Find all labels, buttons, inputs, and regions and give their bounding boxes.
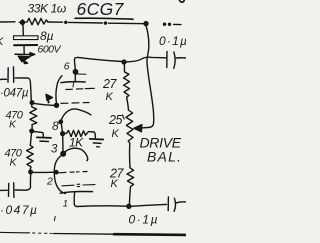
wire cap to grid junction <box>15 78 31 102</box>
ground middle-left <box>37 136 51 139</box>
svg-text:·047µ: ·047µ <box>0 203 38 217</box>
potentiometer 25K drive balance <box>126 110 133 143</box>
wire B+ from left edge <box>0 21 15 23</box>
tube U1 lower cathode arc pin 3 <box>64 148 88 161</box>
wire dash-dot continuation to right edge <box>164 23 171 25</box>
wire to middle ground <box>34 132 44 137</box>
svg-text:K: K <box>10 157 18 169</box>
arrow wiper of drive balance pot <box>134 125 142 132</box>
label 470K lower <box>5 148 23 169</box>
svg-text:K: K <box>111 178 119 190</box>
ground below 8u cap <box>15 53 33 55</box>
label DRIVE BAL. <box>140 135 183 165</box>
resistor 27K upper plate load <box>124 64 130 110</box>
node ground tap junction <box>30 129 34 133</box>
tube U1 upper plate bar pin 6 <box>61 81 85 84</box>
capacitor 8u 600V top plate <box>14 36 39 40</box>
node cathode junction blob <box>61 152 66 157</box>
wire cathode chain <box>62 135 64 152</box>
resistor 1K cathode <box>65 130 96 137</box>
wire plate lead up <box>74 75 76 83</box>
label .047u lower <box>0 203 38 217</box>
label 600V <box>38 44 62 56</box>
node upper grid junction <box>30 101 34 105</box>
wire lower plate lead down <box>74 192 77 206</box>
label 0.1u lower <box>129 213 160 227</box>
label 0.1u upper <box>159 34 188 48</box>
svg-text:600V: 600V <box>38 44 62 56</box>
svg-text:6CG7: 6CG7 <box>77 0 125 19</box>
label 33K 1W <box>28 2 66 16</box>
wire bottom output <box>77 205 127 208</box>
resistor 33K 1W <box>27 18 48 25</box>
capacitor 0.047u lower input <box>0 189 7 191</box>
pin 2 label <box>46 176 53 188</box>
svg-text:K: K <box>112 128 120 140</box>
label K cut at left edge <box>0 36 4 48</box>
resistor 470K upper grid leak <box>30 105 37 130</box>
wire bottom bus <box>0 231 30 234</box>
tube U1 upper cathode arc pin 8 <box>61 109 91 122</box>
svg-text:0·1µ: 0·1µ <box>129 213 160 227</box>
tube U1 upper grid second dashed row <box>61 102 89 105</box>
arrow on grid wire <box>46 94 53 102</box>
pin 1 label <box>63 199 68 210</box>
svg-text:·047µ: ·047µ <box>0 88 29 100</box>
tube U1 upper grid (dashed) <box>66 88 95 89</box>
pin 8 label <box>52 119 59 133</box>
svg-text:K: K <box>9 119 17 131</box>
svg-text:1: 1 <box>63 199 68 210</box>
wire pot to lower 27K <box>129 143 131 168</box>
junction / tap at B+ input <box>21 20 25 24</box>
node lower grid junction <box>29 170 33 174</box>
wire B+ vertical drop to pot wiper <box>142 26 154 128</box>
capacitor 0.047u upper input, left lead <box>0 78 7 80</box>
wire upper plate to load <box>78 57 122 61</box>
capacitor 8u 600V bottom plate <box>14 44 37 46</box>
capacitor 8u 600V lead <box>22 26 24 36</box>
tube U1 lower grid dashed pin 2 <box>59 172 87 173</box>
pin 6 label <box>64 61 70 73</box>
tube U1 lower plate bar pin 1 <box>60 191 92 193</box>
svg-text:33K 1ω: 33K 1ω <box>28 2 66 16</box>
tube U1 lower envelope arc <box>54 155 65 194</box>
mark cut label top right <box>180 0 185 2</box>
capacitor 0.1u lower <box>167 197 169 211</box>
pin 3 label <box>51 144 58 156</box>
wire lower grid lead <box>33 171 55 173</box>
label 27K lower <box>109 167 124 191</box>
label 470K upper <box>6 110 24 131</box>
svg-text:25: 25 <box>108 113 122 127</box>
svg-text:BAL.: BAL. <box>147 149 182 165</box>
svg-text:6: 6 <box>64 61 70 73</box>
tube U1 lower second dashed row <box>62 184 95 186</box>
svg-text:8µ: 8µ <box>40 29 54 43</box>
svg-text:K: K <box>106 91 114 103</box>
svg-text:0·1µ: 0·1µ <box>159 34 186 48</box>
stray tick <box>53 217 56 221</box>
label 1K <box>69 136 84 150</box>
wire to B+ node <box>48 21 63 23</box>
tube U1 upper triode envelope arc <box>56 76 62 105</box>
node B+ junction <box>144 22 148 26</box>
resistor 470K lower grid leak <box>27 133 34 171</box>
svg-text:2: 2 <box>46 176 53 188</box>
capacitor 0.1u upper <box>166 52 168 68</box>
node lower output junction <box>127 204 131 208</box>
label 27K upper <box>102 77 117 103</box>
underline of 6CG7 <box>75 17 133 20</box>
wire with hop over B+ drop <box>126 57 166 62</box>
label 25K <box>123 115 125 119</box>
svg-text:3: 3 <box>51 144 58 156</box>
ground for 1K <box>90 138 103 141</box>
svg-text:8: 8 <box>52 119 59 133</box>
resistor 27K lower plate load <box>127 168 134 205</box>
label .047u upper <box>0 88 29 100</box>
label 8u <box>40 29 54 43</box>
svg-text:27: 27 <box>102 77 117 91</box>
svg-text:1K: 1K <box>69 136 84 150</box>
wire grid lead upper <box>34 103 56 105</box>
wire lower grid to input cap <box>27 174 31 190</box>
node upper output junction <box>122 60 126 64</box>
tube label 6CG7 <box>77 0 125 19</box>
capacitor 0.047u upper bars <box>8 67 14 83</box>
